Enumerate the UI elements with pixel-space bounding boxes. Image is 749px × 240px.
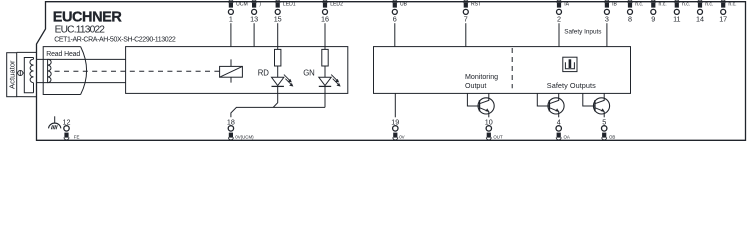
svg-text:UCM: UCM bbox=[236, 1, 248, 7]
wire coil top connection bbox=[37, 58, 126, 60]
transistor output Q2 (OA, pin 4) bbox=[537, 93, 564, 117]
svg-text:GN: GN bbox=[303, 69, 314, 78]
svg-text:RD: RD bbox=[258, 69, 269, 78]
terminal pin 5 (OB) bbox=[602, 118, 616, 140]
svg-text:3: 3 bbox=[605, 15, 609, 24]
svg-text:LED2: LED2 bbox=[330, 1, 343, 7]
wire pin 13 stub bbox=[253, 23, 255, 46]
wire resistor to LED bbox=[277, 66, 279, 77]
svg-text:8: 8 bbox=[628, 15, 632, 24]
svg-text:UB: UB bbox=[400, 1, 408, 7]
svg-text:16: 16 bbox=[321, 15, 329, 24]
svg-text:0V: 0V bbox=[399, 135, 404, 140]
terminal pin 1 (UCM) bbox=[228, 0, 247, 24]
terminal pin 4 (OA) bbox=[556, 118, 570, 140]
terminal pin 17 (n.c.) bbox=[719, 0, 736, 24]
svg-text:n.c.: n.c. bbox=[728, 1, 736, 7]
svg-text:6: 6 bbox=[393, 15, 397, 24]
transistor output Q3 (OB, pin 5) bbox=[583, 93, 610, 117]
wire pin 1 stub bbox=[230, 23, 232, 46]
terminal pin 10 (OUT) bbox=[485, 118, 503, 140]
terminal pin 16 (LED2) bbox=[321, 0, 343, 24]
svg-text:Safety Outputs: Safety Outputs bbox=[547, 81, 596, 90]
wire pin to resistor at x=277.7 bbox=[277, 23, 279, 49]
actuator transponder coil bbox=[24, 58, 33, 93]
svg-text:IA: IA bbox=[564, 1, 569, 7]
actuator box with rotated label bbox=[7, 53, 17, 97]
terminal pin 15 (LED1) bbox=[274, 0, 296, 24]
svg-text:LED1: LED1 bbox=[283, 1, 296, 7]
svg-text:7: 7 bbox=[464, 15, 468, 24]
wire pin 19 from box to terminal bbox=[394, 93, 396, 117]
svg-text:RST: RST bbox=[471, 1, 481, 7]
svg-text:11: 11 bbox=[673, 15, 680, 24]
LED R1/LED1 (RD) bbox=[272, 75, 293, 87]
terminal pin 19 (0V) bbox=[391, 118, 404, 140]
svg-text:13: 13 bbox=[250, 15, 258, 24]
guard-lock icon bbox=[563, 57, 577, 71]
dashed transponder signal line bbox=[55, 70, 220, 72]
dashed divider inside output box bbox=[511, 48, 513, 88]
wire LED1 cathode down with 45-degree jog bbox=[273, 86, 278, 107]
terminal pin 6 (UB) bbox=[392, 0, 407, 24]
wire pin to resistor at x=325.0 bbox=[324, 23, 326, 49]
transponder evaluation box bbox=[126, 47, 348, 94]
svg-text:1: 1 bbox=[229, 15, 233, 24]
svg-text:EUC.113022: EUC.113022 bbox=[55, 25, 106, 36]
svg-text:EUCHNER: EUCHNER bbox=[53, 10, 123, 26]
terminal pin 11 (n.c.) bbox=[673, 0, 690, 24]
terminal pin 9 (n.c.) bbox=[651, 0, 667, 24]
functional earth symbol bbox=[49, 116, 61, 129]
svg-text:n.c.: n.c. bbox=[705, 1, 713, 7]
converter symbol (rect with diagonal) bbox=[220, 59, 243, 82]
wire pin 7 stub bbox=[465, 23, 467, 46]
terminal pin 13 ()) bbox=[250, 0, 261, 24]
wire LED common return to pin 18 bbox=[231, 107, 325, 117]
svg-text:9: 9 bbox=[651, 15, 655, 24]
svg-text:n.c.: n.c. bbox=[659, 1, 667, 7]
resistor R2/LED2 (GN) bbox=[322, 49, 328, 66]
wire actuator to coil with crossing-point symbol bbox=[17, 72, 25, 74]
wire coil bottom connection bbox=[37, 82, 126, 84]
svg-text:Read Head: Read Head bbox=[46, 51, 80, 58]
svg-text:): ) bbox=[259, 1, 261, 7]
terminal pin 14 (n.c.) bbox=[696, 0, 713, 24]
svg-text:IB: IB bbox=[612, 1, 617, 7]
svg-text:n.c.: n.c. bbox=[635, 1, 643, 7]
svg-text:OB: OB bbox=[609, 135, 615, 140]
transistor output Q1 (OUT, pin 10) bbox=[467, 93, 494, 117]
svg-text:15: 15 bbox=[274, 15, 282, 24]
device outline (housing of CET1-AR evaluation unit) bbox=[37, 2, 746, 141]
wire resistor to LED bbox=[324, 66, 326, 77]
read head coil bbox=[48, 59, 52, 82]
terminal pin 8 (n.c.) bbox=[628, 0, 644, 24]
svg-text:2: 2 bbox=[557, 15, 561, 24]
svg-text:Monitoring: Monitoring bbox=[465, 73, 498, 81]
terminal pin 12 (FE) bbox=[63, 118, 80, 140]
svg-text:0V(UCM): 0V(UCM) bbox=[235, 135, 254, 140]
svg-text:OA: OA bbox=[564, 135, 570, 140]
svg-text:14: 14 bbox=[696, 15, 704, 24]
wire LED2 cathode down bbox=[324, 86, 326, 107]
svg-text:Actuator: Actuator bbox=[7, 60, 16, 89]
svg-text:17: 17 bbox=[719, 15, 727, 24]
wire pin 6 stub bbox=[394, 23, 396, 46]
read head box with curved right face bbox=[43, 47, 86, 95]
output/logic box bbox=[374, 47, 631, 94]
wire pin 3 stub bbox=[606, 23, 608, 46]
crossing-point circle symbol bbox=[18, 70, 23, 75]
terminal pin 3 (IB) bbox=[604, 0, 617, 24]
terminal pin 18 (0V(UCM)) bbox=[227, 118, 254, 140]
wire pin 2 stub bbox=[558, 23, 560, 46]
svg-text:CET1-AR-CRA-AH-50X-SH-C2290-11: CET1-AR-CRA-AH-50X-SH-C2290-113022 bbox=[54, 36, 176, 43]
terminal pin 7 (RST) bbox=[463, 0, 481, 24]
resistor R1/LED1 (RD) bbox=[275, 49, 281, 66]
svg-text:OUT: OUT bbox=[493, 135, 503, 140]
terminal pin 2 (IA) bbox=[557, 0, 570, 24]
svg-text:FE: FE bbox=[74, 135, 80, 140]
LED R2/LED2 (GN) bbox=[319, 75, 340, 87]
actuator mounting lines to housing bbox=[17, 52, 37, 96]
svg-text:Safety Inputs: Safety Inputs bbox=[564, 29, 601, 36]
svg-text:Output: Output bbox=[465, 82, 486, 90]
svg-text:n.c.: n.c. bbox=[682, 1, 690, 7]
